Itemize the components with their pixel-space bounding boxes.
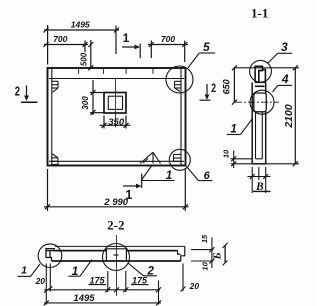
embed comb bottom-right (detail 6) <box>174 155 181 162</box>
lifting loop (detail 3) <box>255 66 265 82</box>
detail circle 5 <box>166 66 193 93</box>
svg-text:6: 6 <box>204 170 211 182</box>
opening inner square <box>108 96 122 109</box>
svg-text:1: 1 <box>123 31 130 45</box>
svg-text:1495: 1495 <box>73 293 95 304</box>
leader label 2 2-2 <box>128 263 157 276</box>
dim 700 right <box>148 41 188 63</box>
svg-text:20: 20 <box>189 281 200 291</box>
dim 500 vertical <box>88 40 93 70</box>
leader label 1 2-2 left <box>18 264 41 276</box>
section mark 1 bottom <box>123 174 142 189</box>
embed comb bottom-left <box>52 154 58 165</box>
section mark 2 left <box>21 86 38 103</box>
1-1 column inner slot <box>256 111 263 159</box>
panel outer outline <box>48 68 186 166</box>
svg-text:1: 1 <box>230 124 236 136</box>
1-1 column outer <box>252 83 266 164</box>
dim 20 2-2 left <box>44 264 53 305</box>
svg-text:500: 500 <box>79 52 88 66</box>
opening centerline <box>115 79 117 128</box>
dim 1495 top <box>44 25 120 65</box>
dim 650 <box>232 65 237 104</box>
embed comb top-right (detail 5) <box>175 81 181 91</box>
svg-text:1: 1 <box>125 188 132 202</box>
dim 300 vertical <box>90 80 104 115</box>
section mark 1 top <box>122 44 140 59</box>
svg-text:20: 20 <box>35 276 46 286</box>
svg-text:1: 1 <box>166 170 172 182</box>
svg-text:2: 2 <box>146 265 154 277</box>
drain triangle <box>140 152 161 163</box>
svg-text:2: 2 <box>15 84 20 98</box>
dim line 175-175 2-2 <box>44 271 161 305</box>
leader label 5 <box>188 53 215 68</box>
opening outer square <box>104 93 126 114</box>
detail circle 2 middle <box>103 244 130 271</box>
detail circle 3 <box>250 60 272 82</box>
leader label 1 section <box>227 119 253 135</box>
svg-text:350: 350 <box>108 117 125 128</box>
dim 2100 <box>266 65 299 166</box>
1-1 top flange bars <box>255 82 266 86</box>
svg-text:Б: Б <box>211 252 223 260</box>
embed comb top-left <box>52 81 58 92</box>
svg-text:175: 175 <box>89 276 105 286</box>
leader label 6 <box>187 167 213 181</box>
svg-text:10: 10 <box>221 149 230 158</box>
dim 10 section 1-1 <box>231 151 253 169</box>
centerline through detail 4 <box>235 101 279 103</box>
svg-text:700: 700 <box>53 34 67 44</box>
detail circle 4 <box>250 90 274 114</box>
svg-text:3: 3 <box>281 40 288 54</box>
dim 350 <box>100 116 131 129</box>
leader label 4 <box>273 85 293 92</box>
dim 700 left <box>44 41 89 53</box>
svg-text:10: 10 <box>201 261 210 270</box>
svg-text:1-1: 1-1 <box>251 6 268 21</box>
2-2 strip thick top line <box>53 250 178 252</box>
2-2 right break end <box>178 246 185 261</box>
dim chain 15 B 10 right <box>191 238 228 269</box>
svg-text:1: 1 <box>21 265 27 277</box>
2-2 strip top thin line <box>55 245 185 247</box>
console pad (detail 4) <box>254 93 266 112</box>
section mark 2 right <box>200 84 211 100</box>
2-2 opening recess <box>106 249 128 261</box>
dim line 1495 2-2 <box>44 300 161 305</box>
svg-text:2: 2 <box>211 81 216 95</box>
svg-text:2-2: 2-2 <box>107 218 124 233</box>
detail circle 1 left <box>38 244 62 268</box>
svg-text:4: 4 <box>281 72 289 86</box>
1-1 top dim line <box>234 67 299 69</box>
svg-text:175: 175 <box>132 276 148 286</box>
svg-text:15: 15 <box>200 234 209 243</box>
dim 2990 bottom <box>44 169 189 211</box>
svg-text:300: 300 <box>81 96 90 110</box>
leader label 3 <box>268 53 292 63</box>
leader label 1 plan <box>141 166 175 181</box>
panel inner rib lines <box>51 68 53 166</box>
svg-text:650: 650 <box>222 79 232 94</box>
svg-text:В: В <box>255 181 264 193</box>
svg-text:1: 1 <box>72 264 79 278</box>
dim 20 2-2 right <box>181 264 186 292</box>
dim B section 1-1 <box>248 167 271 193</box>
2-2 left end hook <box>46 249 55 261</box>
2-2 strip bottom line <box>52 260 181 262</box>
top rib stubs <box>79 69 153 74</box>
detail circle 6 <box>169 149 190 170</box>
2-2 centerline <box>116 235 118 296</box>
svg-text:1495: 1495 <box>71 19 90 29</box>
svg-text:700: 700 <box>161 34 175 44</box>
svg-text:5: 5 <box>203 40 210 54</box>
leader label 1 2-2 mid <box>69 260 93 277</box>
svg-text:2100: 2100 <box>283 104 295 129</box>
